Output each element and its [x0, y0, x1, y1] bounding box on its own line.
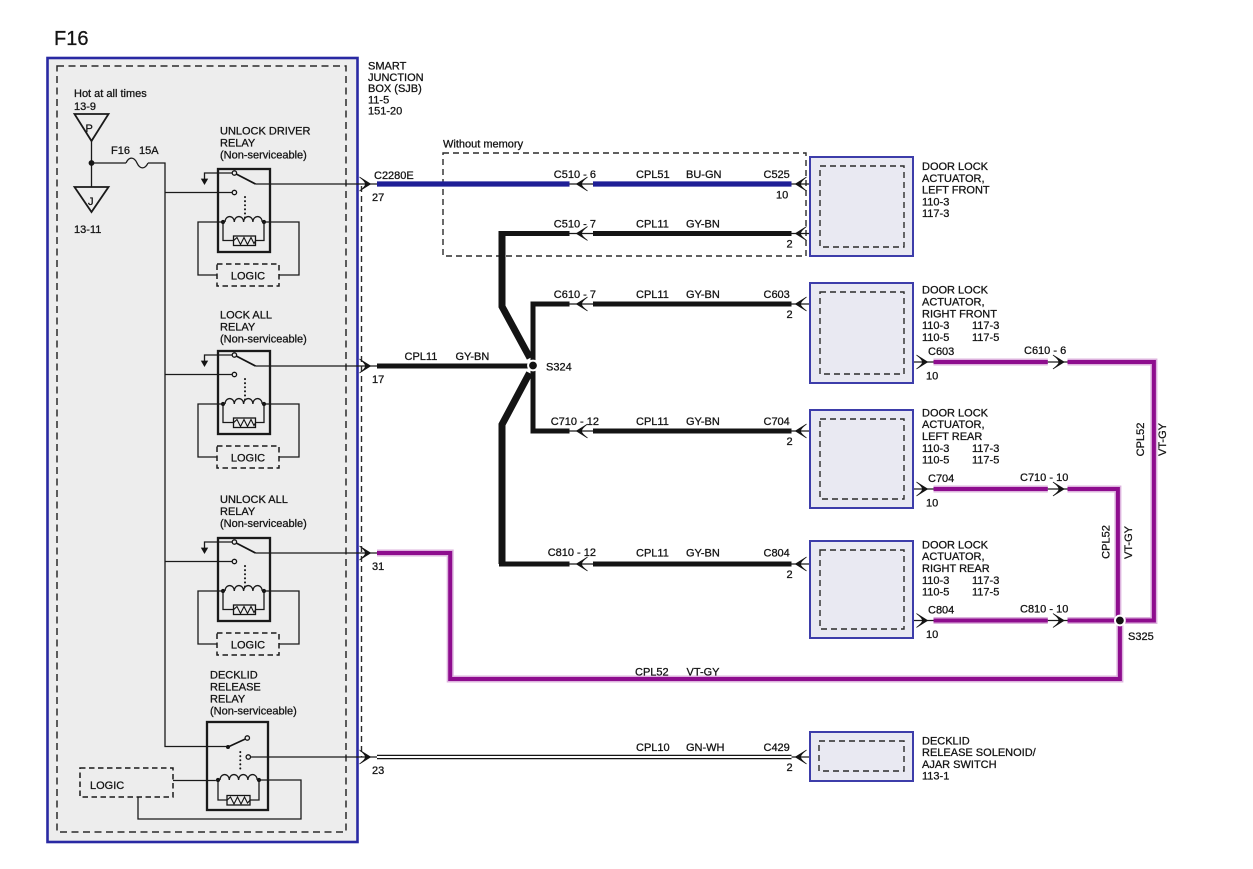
- svg-text:UNLOCK ALL: UNLOCK ALL: [220, 494, 288, 506]
- logic box K4: [80, 768, 173, 797]
- decklid release solenoid box: [810, 732, 1037, 783]
- connector arrow C610-7: [577, 297, 588, 311]
- svg-text:RELAY: RELAY: [220, 506, 256, 518]
- switch arm K4: [226, 745, 230, 749]
- svg-text:DOOR LOCK: DOOR LOCK: [922, 539, 989, 551]
- svg-text:DOOR LOCK: DOOR LOCK: [922, 407, 989, 419]
- dotted link K2: [244, 379, 246, 400]
- svg-text:DECKLID: DECKLID: [210, 670, 258, 682]
- fuse F16 15A symbol: [126, 158, 148, 168]
- svg-text:GN-WH: GN-WH: [686, 742, 725, 754]
- resistor K3: [223, 591, 264, 610]
- switch contact K2: [232, 372, 236, 376]
- svg-text:RELEASE SOLENOID/: RELEASE SOLENOID/: [922, 747, 1037, 759]
- connector arrow C710-12: [577, 424, 588, 438]
- svg-text:2: 2: [787, 762, 793, 774]
- svg-text:RELEASE: RELEASE: [210, 682, 261, 694]
- logic link wires K3: [198, 591, 223, 644]
- svg-text:CPL51: CPL51: [636, 169, 670, 181]
- svg-text:GY-BN: GY-BN: [686, 416, 720, 428]
- coil K4: [216, 778, 220, 782]
- svg-text:CPL11: CPL11: [636, 219, 669, 231]
- svg-text:RIGHT FRONT: RIGHT FRONT: [922, 308, 997, 320]
- svg-text:CPL11: CPL11: [405, 351, 438, 363]
- svg-text:110-3: 110-3: [922, 575, 949, 587]
- wire K1 to pin 27: [256, 183, 378, 185]
- svg-text:C610 - 7: C610 - 7: [554, 289, 596, 301]
- svg-text:(Non-serviceable): (Non-serviceable): [210, 706, 297, 718]
- connector arrow C710-10: [1053, 482, 1064, 496]
- svg-text:117-5: 117-5: [972, 332, 999, 344]
- trunk wire C510-7 down to splice S324: [502, 231, 530, 358]
- svg-text:13-9: 13-9: [74, 101, 96, 113]
- switch arm K3: [236, 543, 255, 553]
- svg-text:117-3: 117-3: [972, 575, 999, 587]
- logic box K1: [217, 264, 279, 286]
- svg-text:C603: C603: [764, 289, 790, 301]
- svg-text:151-20: 151-20: [368, 106, 402, 118]
- svg-text:P: P: [86, 123, 93, 135]
- svg-text:117-3: 117-3: [972, 443, 999, 455]
- svg-text:JUNCTION: JUNCTION: [368, 72, 424, 84]
- connector arrow C704 pin2: [796, 424, 807, 438]
- dotted link K1: [244, 197, 246, 218]
- svg-text:LOGIC: LOGIC: [231, 271, 265, 283]
- feed branch to relay 3: [165, 561, 232, 563]
- svg-text:2: 2: [787, 569, 793, 581]
- svg-text:GY-BN: GY-BN: [456, 351, 490, 363]
- resistor K4: [218, 780, 259, 800]
- svg-text:13-11: 13-11: [74, 224, 101, 236]
- splice S325: [1115, 616, 1125, 626]
- door lock actuator left front box: [810, 157, 990, 256]
- svg-text:CPL11: CPL11: [636, 548, 669, 560]
- svg-text:110-3: 110-3: [922, 320, 949, 332]
- svg-text:LOGIC: LOGIC: [90, 780, 124, 792]
- wire K3 to pin 31: [256, 552, 378, 554]
- svg-text:C510 - 6: C510 - 6: [554, 169, 596, 181]
- connector arrow C510-6: [577, 177, 588, 191]
- connector arrow C810-10: [1053, 614, 1064, 628]
- wire fuse to feed bus: [148, 163, 227, 747]
- connector arrow C610-6: [1053, 355, 1064, 369]
- svg-text:C710 - 10: C710 - 10: [1020, 472, 1068, 484]
- dotted link K4: [239, 752, 241, 772]
- resistor K2: [223, 404, 264, 423]
- svg-text:117-5: 117-5: [972, 455, 999, 467]
- wire P to J: [91, 141, 93, 187]
- switch pivot K3: [232, 540, 236, 544]
- svg-text:S324: S324: [546, 362, 572, 374]
- logic link wires K2: [198, 404, 223, 457]
- svg-text:BOX (SJB): BOX (SJB): [368, 83, 422, 95]
- svg-text:117-3: 117-3: [972, 320, 999, 332]
- connector arrow C429: [796, 750, 807, 764]
- SJB connector dashed line C2280E: [361, 186, 363, 757]
- svg-text:GY-BN: GY-BN: [686, 289, 720, 301]
- svg-text:CPL11: CPL11: [636, 416, 669, 428]
- wire GY-BN S324 to C710-12 row: [533, 370, 820, 438]
- svg-text:LEFT FRONT: LEFT FRONT: [922, 185, 990, 197]
- switch pivot K1: [232, 171, 236, 175]
- svg-text:10: 10: [776, 190, 788, 202]
- svg-text:VT-GY: VT-GY: [687, 667, 721, 679]
- svg-text:10: 10: [926, 498, 938, 510]
- svg-text:110-3: 110-3: [922, 443, 949, 455]
- pin 23 connector arrow: [360, 750, 371, 764]
- svg-text:(Non-serviceable): (Non-serviceable): [220, 150, 307, 162]
- wire GY-BN pin17 to S324: [377, 364, 530, 369]
- door lock actuator left rear box: [810, 407, 999, 508]
- svg-text:CPL52: CPL52: [1101, 525, 1113, 559]
- svg-text:17: 17: [372, 374, 384, 386]
- svg-text:VT-GY: VT-GY: [1123, 525, 1135, 559]
- svg-text:RELAY: RELAY: [210, 694, 246, 706]
- switch contact K1: [232, 190, 236, 194]
- switch pivot K2: [232, 353, 236, 357]
- svg-text:S325: S325: [1128, 631, 1154, 643]
- svg-text:LOCK ALL: LOCK ALL: [220, 310, 272, 322]
- svg-text:GY-BN: GY-BN: [686, 219, 720, 231]
- svg-text:C710 - 12: C710 - 12: [551, 416, 599, 428]
- switch arm K2: [236, 356, 255, 366]
- svg-text:SMART: SMART: [368, 61, 407, 73]
- feed branch to relay 2: [165, 374, 232, 376]
- feed branch to relay 1: [165, 192, 232, 194]
- svg-text:BU-GN: BU-GN: [686, 169, 722, 181]
- ground arrow K2: [205, 355, 233, 362]
- SJB inner dashed border: [57, 66, 346, 832]
- coil return loop K4: [138, 780, 301, 819]
- coil K3: [221, 589, 225, 593]
- svg-text:LEFT REAR: LEFT REAR: [922, 431, 982, 443]
- smart junction box SJB outline: [48, 58, 358, 842]
- wire GN-WH pin23 to C429 (double line): [377, 750, 820, 764]
- power triangle J: [75, 187, 109, 212]
- svg-text:C525: C525: [764, 169, 790, 181]
- svg-text:C704: C704: [928, 473, 954, 485]
- svg-text:RIGHT REAR: RIGHT REAR: [922, 563, 990, 575]
- connector arrow C804 pin2: [796, 557, 807, 571]
- wire GY-BN trunk to C810-12 row: [499, 557, 820, 571]
- svg-text:23: 23: [372, 765, 384, 777]
- dotted link K3: [244, 566, 246, 587]
- resistor K1: [223, 222, 264, 241]
- svg-text:DECKLID: DECKLID: [922, 736, 970, 748]
- svg-text:GY-BN: GY-BN: [686, 548, 720, 560]
- logic box K3: [217, 633, 279, 655]
- pin 17 connector arrow: [360, 359, 371, 373]
- wire GY-BN S324 to C610-7 row: [533, 297, 820, 361]
- svg-text:Hot at all times: Hot at all times: [74, 88, 147, 100]
- svg-text:ACTUATOR,: ACTUATOR,: [922, 297, 985, 309]
- wire VT-GY C603 pin10 to S325 via C610-6: [904, 355, 1154, 620]
- coil K2: [221, 402, 225, 406]
- svg-text:C603: C603: [928, 346, 954, 358]
- svg-text:DOOR LOCK: DOOR LOCK: [922, 285, 989, 297]
- svg-text:J: J: [88, 196, 94, 208]
- switch arm K1: [236, 174, 255, 184]
- svg-text:ACTUATOR,: ACTUATOR,: [922, 419, 985, 431]
- svg-text:LOGIC: LOGIC: [231, 453, 265, 465]
- svg-text:LOGIC: LOGIC: [231, 640, 265, 652]
- relay K4 DECKLID RELEASE RELAY: [80, 670, 384, 820]
- svg-text:Without memory: Without memory: [443, 139, 524, 151]
- wire VT-GY C704 pin10 to S325 via C710-10: [904, 482, 1118, 617]
- svg-text:(Non-serviceable): (Non-serviceable): [220, 334, 307, 346]
- svg-text:ACTUATOR,: ACTUATOR,: [922, 551, 985, 563]
- svg-text:C2280E: C2280E: [374, 170, 414, 182]
- switch contact K3: [232, 559, 236, 563]
- connector arrow C603 pin2: [796, 297, 807, 311]
- svg-text:10: 10: [926, 629, 938, 641]
- logic box K2: [217, 446, 279, 468]
- svg-text:AJAR SWITCH: AJAR SWITCH: [922, 759, 997, 771]
- svg-text:C704: C704: [764, 416, 790, 428]
- svg-text:F16: F16: [111, 145, 130, 157]
- ground arrow K1: [205, 173, 233, 180]
- svg-text:C510 - 7: C510 - 7: [554, 219, 596, 231]
- svg-text:10: 10: [926, 371, 938, 383]
- wire K2 to pin 17: [256, 365, 378, 367]
- svg-text:110-3: 110-3: [922, 196, 949, 208]
- svg-text:2: 2: [787, 309, 793, 321]
- svg-text:C810 - 10: C810 - 10: [1020, 604, 1068, 616]
- svg-text:113-1: 113-1: [922, 771, 949, 783]
- pin 27 connector arrow: [360, 177, 371, 191]
- svg-text:C610 - 6: C610 - 6: [1024, 345, 1066, 357]
- wire VT-GY pin31 to S325 (long route): [377, 553, 1120, 679]
- svg-text:C804: C804: [928, 605, 954, 617]
- switch pivot K4: [245, 736, 249, 740]
- without memory dashed group box: [443, 153, 806, 256]
- svg-text:ACTUATOR,: ACTUATOR,: [922, 173, 985, 185]
- relay K2 LOCK ALL RELAY: [198, 310, 384, 469]
- connector arrow C525: [796, 177, 807, 191]
- svg-text:CPL11: CPL11: [636, 289, 669, 301]
- trunk wire S324 down to C810-12 row: [502, 373, 530, 564]
- coil K1: [221, 220, 225, 224]
- svg-text:UNLOCK DRIVER: UNLOCK DRIVER: [220, 126, 311, 138]
- svg-text:15A: 15A: [139, 145, 159, 157]
- svg-text:117-3: 117-3: [922, 208, 949, 220]
- svg-text:31: 31: [372, 561, 384, 573]
- svg-text:CPL52: CPL52: [635, 667, 669, 679]
- connector arrow C704 pin10: [917, 482, 928, 496]
- switch contact K4 to pin 23: [246, 755, 250, 759]
- wire GY-BN C510-7 row: [502, 227, 820, 241]
- svg-text:C810 - 12: C810 - 12: [548, 547, 596, 559]
- relay K1 UNLOCK DRIVER RELAY: [198, 126, 384, 287]
- svg-text:2: 2: [787, 436, 793, 448]
- door lock actuator right front box: [810, 283, 999, 383]
- svg-text:CPL52: CPL52: [1135, 423, 1147, 457]
- connector arrow C704 top: [796, 227, 807, 241]
- pin 31 connector arrow: [360, 546, 371, 560]
- svg-text:VT-GY: VT-GY: [1157, 422, 1169, 456]
- svg-text:2: 2: [787, 239, 793, 251]
- svg-text:(Non-serviceable): (Non-serviceable): [220, 518, 307, 530]
- junction node dot: [89, 160, 95, 166]
- connector arrow C810-12: [577, 557, 588, 571]
- wire VT-GY C804 pin10 to S325 via C810-10: [904, 614, 1115, 628]
- wire BU-GN pin27 to C525 (blue): [377, 177, 820, 191]
- wire junction to fuse: [92, 162, 127, 164]
- svg-text:27: 27: [372, 192, 384, 204]
- svg-text:11-5: 11-5: [368, 94, 389, 106]
- door lock actuator right rear box: [810, 539, 999, 638]
- svg-text:DOOR LOCK: DOOR LOCK: [922, 161, 989, 173]
- logic link wires K1: [198, 222, 223, 275]
- power triangle P: [75, 114, 109, 141]
- svg-text:110-5: 110-5: [922, 332, 949, 344]
- svg-text:RELAY: RELAY: [220, 138, 256, 150]
- svg-text:110-5: 110-5: [922, 455, 949, 467]
- svg-text:C429: C429: [764, 742, 790, 754]
- svg-text:CPL10: CPL10: [636, 742, 670, 754]
- wire K4 to pin 23: [251, 756, 378, 758]
- svg-text:F16: F16: [54, 28, 88, 50]
- wire logic to coil K4: [173, 780, 216, 782]
- relay K3 UNLOCK ALL RELAY: [198, 494, 384, 655]
- svg-text:117-5: 117-5: [972, 587, 999, 599]
- svg-text:C804: C804: [764, 548, 790, 560]
- splice S324: [528, 361, 538, 371]
- ground arrow K3: [205, 542, 233, 549]
- svg-text:RELAY: RELAY: [220, 322, 256, 334]
- connector arrow C603 pin10: [917, 355, 928, 369]
- connector arrow C804 pin10: [917, 614, 928, 628]
- connector arrow C510-7: [577, 227, 588, 241]
- svg-text:110-5: 110-5: [922, 587, 949, 599]
